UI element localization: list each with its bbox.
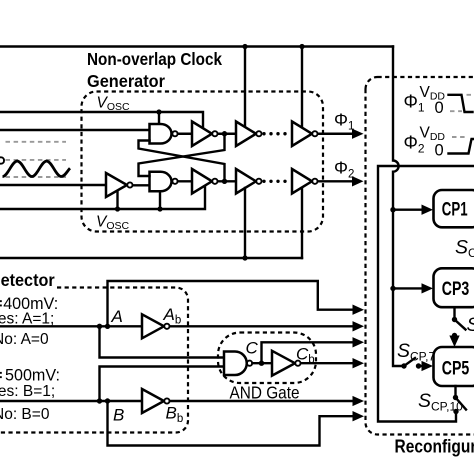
ellipsis dots bottom row <box>262 180 265 183</box>
dashed box reconfigurable charge pump <box>366 77 474 435</box>
svg-text:SCP: SCP <box>467 314 474 338</box>
wire top signal input <box>0 129 150 131</box>
wire A down to AND gate <box>100 326 225 357</box>
wire supply tap to top inverter 2 <box>244 47 246 128</box>
node top feedback tap <box>222 131 227 136</box>
wire V_OSC bottom supply rail <box>0 186 205 209</box>
node CP3 tap <box>390 286 395 291</box>
wire CP3 bottom stub <box>453 307 455 319</box>
svg-text:Yes: B=1;: Yes: B=1; <box>0 383 55 400</box>
gray level line 3 <box>6 176 67 178</box>
svg-text:Yes: A=1;: Yes: A=1; <box>0 311 54 328</box>
wire B input <box>0 400 142 402</box>
svg-text:CP5: CP5 <box>442 358 470 379</box>
arrow B <box>353 411 365 421</box>
wire inverter1 to node <box>218 133 236 135</box>
wire inverter2b supply down <box>244 188 246 258</box>
AND NAND bubble <box>247 361 252 366</box>
svg-text:No: A=0: No: A=0 <box>0 331 49 348</box>
inverter U10 (A) <box>142 314 164 338</box>
wire phi2 output <box>318 180 354 182</box>
wire C node <box>252 362 272 364</box>
svg-text:Non-overlap Clock: Non-overlap Clock <box>87 49 222 69</box>
wire A up and over to reconfigurable box <box>108 281 355 326</box>
wire A_b output <box>170 325 354 327</box>
wire B up to AND gate <box>100 367 225 402</box>
node top rail / inverter supply tap 2 <box>299 44 304 49</box>
NAND gate U1 (top row) <box>150 124 172 144</box>
svg-text:CP1: CP1 <box>442 200 468 221</box>
node V_OSC bottom rail / NAND2 supply <box>157 206 162 211</box>
arrow into CP3 <box>422 283 434 293</box>
inverter U7 (bottom row 1) <box>192 169 212 194</box>
wire cross feedback S1 (bottom out to NAND1 input) <box>139 141 225 182</box>
wire B down and over to reconfigurable box <box>108 401 355 446</box>
arrow A <box>353 305 365 315</box>
node A branch down <box>97 324 102 329</box>
gray level phi2 high <box>452 136 468 138</box>
svg-text:0: 0 <box>435 142 444 160</box>
svg-text:Reconfigurable: Reconfigurable <box>395 436 474 456</box>
wire NAND1 to inverter1 <box>178 133 192 135</box>
inverter U8 (bottom row 2) <box>236 169 256 194</box>
inverter U13 (C) <box>272 351 295 376</box>
wire and arrow into CP5 <box>419 365 424 367</box>
inverter0 bubble <box>127 182 132 187</box>
wire CP5 bottom stub <box>454 386 456 398</box>
wire top rail <box>0 45 393 47</box>
svg-text:0: 0 <box>435 99 444 117</box>
wire B_b output <box>170 400 354 402</box>
svg-text:Generator: Generator <box>87 71 165 91</box>
NAND2 output bubble <box>172 179 177 184</box>
svg-text:No: B=0: No: B=0 <box>0 406 50 423</box>
wire C_b output <box>301 362 354 364</box>
inverter U3 (top row 2) <box>236 122 256 147</box>
waveform phi2 <box>449 139 474 154</box>
arrow B_b <box>353 396 365 406</box>
wire NAND2 to inverter1b <box>178 180 192 182</box>
node CP1 tap <box>390 207 395 212</box>
wire NAND2 supply stub <box>159 193 161 210</box>
gray level phi1 high <box>467 94 474 96</box>
inverter2b bubble <box>256 179 261 184</box>
NAND1 output bubble <box>172 131 177 136</box>
inverter C bubble <box>295 361 300 366</box>
block CP3 <box>434 268 474 307</box>
node B branch up <box>97 398 102 403</box>
arrow C_b <box>353 358 365 368</box>
dashed box detector <box>0 288 188 433</box>
node V_OSC bottom rail / inverter0 supply <box>115 206 120 211</box>
gray level phi1 low <box>450 110 462 112</box>
waveform phi1 <box>449 95 473 112</box>
switch S_CP,7 <box>401 363 406 368</box>
wire inverter0 supply stub <box>116 191 118 210</box>
arrow into CP1 <box>422 205 434 215</box>
svg-text:B: B <box>113 406 124 425</box>
dashed box AND gate <box>218 333 316 384</box>
svg-text:detector: detector <box>0 270 55 290</box>
wire to CP3 <box>393 287 423 289</box>
wire A input <box>0 325 142 327</box>
switch S_CP,10 <box>453 395 458 400</box>
inverter3 bubble <box>312 131 317 136</box>
node A branch up <box>105 324 110 329</box>
wire V_DD rail right section <box>378 166 474 422</box>
arrow phi1 <box>352 129 364 139</box>
node bottom feedback tap <box>222 179 227 184</box>
svg-text:500mV:: 500mV: <box>5 366 60 385</box>
oscillator sine wave <box>3 161 71 176</box>
wire long bottom rail <box>0 257 302 259</box>
wire vertical from top rail down right side <box>393 47 404 367</box>
wire V_OSC top supply rail <box>0 112 203 128</box>
svg-text:AND Gate: AND Gate <box>230 383 300 403</box>
block CP5 <box>434 347 474 386</box>
gray level line 1 <box>6 141 67 143</box>
switch S_CP,4 (CP3 to CP5) <box>452 317 457 322</box>
arrow phi2 <box>352 176 364 186</box>
svg-text:CP3: CP3 <box>442 279 470 300</box>
gray level line 2 <box>6 159 67 161</box>
NAND gate U12 (AND gate) <box>224 352 247 376</box>
wire bottom signal input <box>0 184 106 186</box>
inverter U9 (bottom row 3) <box>292 169 312 194</box>
arrow into CP5 top <box>453 336 455 339</box>
arrow A_b <box>353 321 365 331</box>
wire cross feedback S2 (top out to NAND2 input) <box>139 134 225 176</box>
node V_OSC rail / NAND1 supply <box>156 109 161 114</box>
inverter1b bubble <box>212 179 217 184</box>
node C <box>259 361 264 366</box>
svg-text:C: C <box>246 339 259 358</box>
wire C up and out <box>262 342 355 363</box>
label box fragment at left edge <box>0 157 4 163</box>
inverter1 bubble <box>212 131 217 136</box>
inverter U2 (top row 1) <box>192 122 212 147</box>
wire to CP1 <box>393 208 423 210</box>
inverter U4 (top row 3) <box>292 122 312 147</box>
wire NAND1 supply stub <box>158 112 160 124</box>
wire inverter3b supply down <box>301 188 303 258</box>
inverter3b bubble <box>312 179 317 184</box>
inverter B bubble <box>164 398 169 403</box>
node top rail / inverter supply tap 1 <box>242 44 247 49</box>
dashed box non-overlap clock generator <box>82 92 324 232</box>
wire phi1 output <box>318 133 354 135</box>
node bottom rail tap <box>242 255 247 260</box>
NAND gate U6 (bottom row) <box>150 172 172 192</box>
inverter U5 (bottom row input) <box>106 173 127 197</box>
inverter A bubble <box>164 324 169 329</box>
inverter2 bubble <box>256 131 261 136</box>
ellipsis dots top row <box>262 132 265 135</box>
wire supply tap to top inverter 3 <box>301 47 303 128</box>
wire inverter0 to NAND2 <box>133 184 150 186</box>
wire inverter1b to node <box>218 180 236 182</box>
inverter U11 (B) <box>142 389 164 413</box>
node B branch down <box>105 398 110 403</box>
arrow C <box>353 337 365 347</box>
block CP1 <box>434 190 474 227</box>
svg-text:A: A <box>111 307 123 326</box>
